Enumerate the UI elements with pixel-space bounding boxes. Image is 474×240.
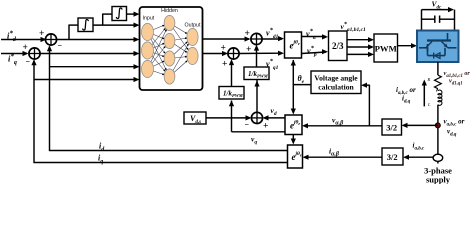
label v_d (271, 106, 277, 117)
wire i*_q reference input (1, 51, 29, 56)
svg-text:jθe: jθe (293, 40, 300, 47)
wire V_ds to S3 (206, 115, 252, 120)
transform block T1 e^(j theta_e) alpha-beta to dq (voltage) (285, 115, 302, 135)
dc link capacitor C (422, 16, 455, 23)
svg-text:−: − (26, 57, 31, 66)
svg-text:+: + (23, 43, 28, 53)
label v*_a1,b1,c1 (341, 21, 367, 33)
svg-text:+: + (263, 122, 268, 132)
wire dots between R and L (436, 89, 438, 92)
label S2 plus (23, 43, 28, 53)
wire I1 output to neural network input 2 (93, 23, 140, 28)
label v_alpha_beta (332, 116, 344, 127)
wire K1 output to S4 (254, 45, 259, 67)
label i_a,b,c (413, 142, 425, 152)
wire i*_d reference input (1, 37, 47, 42)
block K1 1/k_PWM (244, 67, 269, 80)
wire S4 output v*_d1 to transform block T3 (262, 36, 284, 41)
transform block T2 e^(j theta_e) alpha-beta to dq (current) (288, 145, 303, 168)
wire PWM to inverter (398, 43, 418, 48)
summing junction S5 (v_q1) (228, 48, 239, 59)
integrator I2 (112, 7, 127, 21)
label i*_q (8, 52, 17, 66)
label v*_d1 (266, 27, 279, 40)
label v*_alpha (306, 28, 317, 41)
wire 2/3 to PWM phase b (347, 44, 374, 49)
label S3 minus (245, 120, 250, 129)
label i*_d (7, 29, 17, 43)
label v*_beta (307, 45, 317, 58)
label v_q (251, 135, 257, 146)
wire v_d from T1 to summing junction S3 (263, 115, 286, 120)
label i_a,b,c or i_d,q (396, 86, 416, 104)
wire 2/3 to PWM phase c (347, 52, 374, 57)
integrator I1 (78, 18, 93, 32)
svg-text:2/3: 2/3 (332, 41, 344, 51)
summing junction S3 (251, 112, 262, 123)
current measurement arrow i (422, 80, 427, 107)
wire v_q from T1 to 1/k block K2 (229, 100, 285, 132)
wire S1 output to neural network input 3 (57, 37, 140, 42)
svg-text:L: L (427, 102, 431, 107)
svg-text:Hidden: Hidden (161, 8, 178, 14)
wire branch up to integrator I1 (69, 25, 78, 40)
resistor R in supply line (435, 75, 442, 89)
svg-text:PWM: PWM (375, 44, 397, 54)
svg-text:Output: Output (185, 23, 201, 29)
wire tap to voltage angle calculation (361, 83, 369, 126)
wire current tap to B2 (403, 155, 434, 160)
V_dc measurement arrow (422, 7, 455, 12)
wire v_alpha_beta from B1 to transform block T1 (302, 123, 382, 128)
label S1 plus (39, 29, 44, 39)
wire T3 output v*_beta to 2/3 block (302, 49, 329, 54)
dc link rail right (454, 10, 456, 31)
label R (427, 77, 431, 82)
svg-text:+: + (221, 44, 226, 54)
label v_a1,b1,c1 or v_d1,q1 (444, 70, 471, 86)
wire NN output 1 to summing junction S4 (203, 36, 251, 41)
block 2/3 phase transform (329, 31, 348, 61)
svg-text:+: + (245, 29, 250, 39)
wire 2/3 to PWM phase a (347, 37, 374, 42)
label theta_e (298, 74, 305, 85)
current sensor ellipse on supply line (433, 154, 443, 163)
wire NN output 2 to summing junction S5 (203, 51, 229, 56)
svg-text:Voltage angle: Voltage angle (314, 74, 358, 83)
wire theta_e distribution (291, 60, 311, 115)
wire i_alpha_beta from 3/2 block B2 to T2 (303, 155, 383, 160)
block V_ds constant (184, 112, 206, 125)
svg-text:+: + (222, 60, 227, 70)
label i_d feedback (99, 142, 105, 154)
label L (427, 102, 431, 107)
label S2 minus (26, 57, 31, 66)
wire branch up to integrator I2 (103, 14, 112, 26)
svg-text:+: + (39, 29, 44, 39)
wire S5 output v*_q1 to transform block T3 (239, 51, 284, 56)
block K2 1/k_PWM (219, 87, 244, 100)
svg-text:supply: supply (426, 175, 451, 185)
wire i_d feedback from transform block T2 (47, 45, 288, 151)
svg-text:3/2: 3/2 (386, 123, 397, 133)
block voltage angle calculation (311, 71, 361, 94)
wire branch i_d to neural network input 5 (50, 64, 140, 69)
dc link rail left (421, 10, 423, 31)
label S1 minus (58, 41, 63, 50)
label S5 plus bottom (222, 60, 227, 70)
svg-text:jθe: jθe (293, 119, 300, 126)
wire I2 output to neural network input 1 (127, 12, 140, 17)
neural network controller block NN (140, 7, 203, 90)
wire supply line lower section (437, 105, 439, 155)
inverter power block U1 (417, 31, 459, 63)
svg-text:−: − (58, 41, 63, 50)
svg-text:calculation: calculation (318, 83, 354, 92)
label S4 plus left (245, 29, 250, 39)
summing junction S1 (i_d error) (45, 34, 56, 45)
svg-text:R: R (427, 77, 431, 82)
wire inverter output down to supply (437, 62, 439, 75)
summing junction S4 (v_d1) (251, 33, 262, 44)
wire branch i_q to neural network input 6 (34, 77, 140, 82)
svg-text:−: − (245, 120, 250, 129)
wire K2 output to S5 (229, 59, 234, 86)
wire T3 output v*_alpha to 2/3 block (302, 34, 329, 39)
transform block T3 e^(j theta_e) dq to alpha-beta (285, 32, 302, 58)
wire S3 output up to 1/k block K1 (254, 80, 259, 113)
block PWM modulator (374, 34, 398, 62)
block B1 3/2 transform (voltage) (382, 119, 402, 135)
svg-text:jθe: jθe (295, 151, 302, 158)
summing junction S2 (i_q error) (29, 48, 40, 59)
label S4 plus bottom (246, 45, 251, 55)
label v*_q1 (266, 58, 279, 71)
wire voltage tap to 3/2 block B1 (402, 123, 438, 128)
inductor L in supply line (438, 90, 442, 105)
svg-text:3/2: 3/2 (387, 152, 398, 162)
wire S2 output to neural network input 4 (40, 51, 139, 56)
wire i_q feedback from transform block T2 (31, 59, 287, 163)
label v_a,b,c or v_d,q (444, 118, 465, 138)
label S3 plus (263, 122, 268, 132)
block B2 3/2 transform (current) (382, 148, 403, 165)
svg-text:Input: Input (143, 16, 155, 22)
label V_dc (432, 0, 443, 11)
label i_q feedback (98, 154, 103, 166)
label S5 plus left (221, 44, 226, 54)
node voltage tap (red junction) (435, 123, 440, 128)
wire theta pass to T2 (291, 135, 296, 145)
label 3-phase supply (424, 166, 452, 185)
label i_alpha_beta (329, 147, 340, 158)
